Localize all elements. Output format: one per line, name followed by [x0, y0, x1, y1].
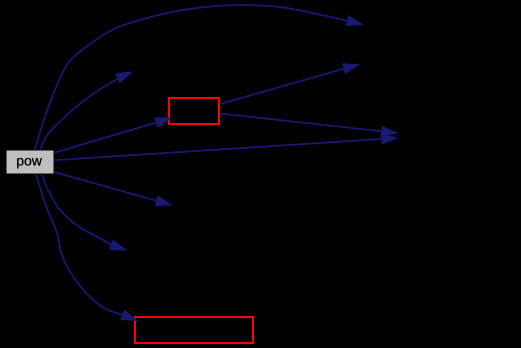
wire edge pow to far-right node [54, 134, 397, 160]
wire edge pow to red node 2 [36, 174, 137, 320]
wire edge pow to top-right node [35, 5, 363, 150]
wire edge red node 1 to upper-right node [220, 64, 359, 104]
wire edge pow to red node 1 [54, 118, 171, 153]
wire edge pow to upper-left node [41, 72, 133, 150]
red node 2 (truncated callee box) [135, 317, 253, 343]
node pow (current function, grey box) [6, 150, 54, 174]
red node 1 (truncated callee box) [169, 98, 219, 124]
wire edge pow to lower node [42, 174, 126, 250]
wire edge red node 1 to far-right node [220, 114, 397, 137]
wire edge pow to middle node [54, 172, 172, 206]
